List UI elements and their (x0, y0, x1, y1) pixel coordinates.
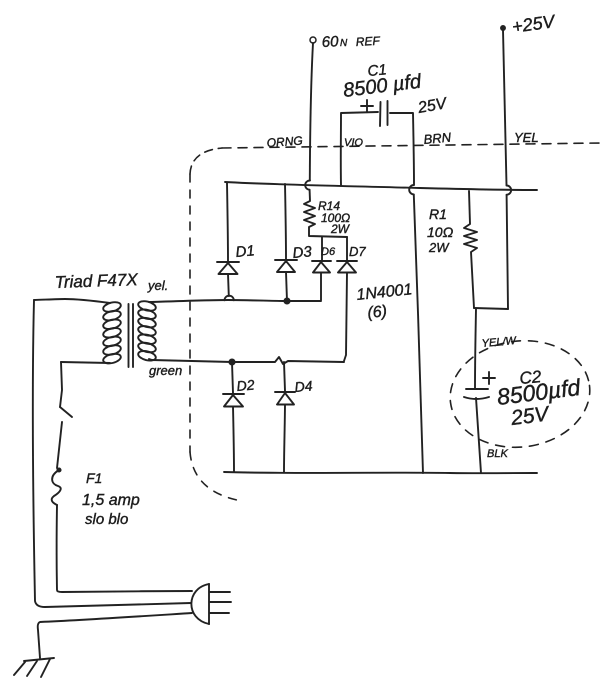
svg-text:D2: D2 (236, 376, 255, 394)
svg-text:BLK: BLK (487, 448, 508, 460)
svg-text:25V: 25V (509, 402, 552, 430)
svg-text:8500 µfd: 8500 µfd (342, 70, 423, 101)
svg-text:60: 60 (321, 33, 339, 51)
svg-text:BRN: BRN (423, 130, 452, 147)
svg-text:D6: D6 (321, 246, 336, 258)
svg-text:2W: 2W (330, 222, 351, 236)
svg-text:2W: 2W (428, 240, 450, 255)
svg-text:D3: D3 (292, 243, 313, 262)
svg-text:D1: D1 (235, 242, 256, 261)
svg-text:(6): (6) (367, 303, 388, 322)
svg-text:F1: F1 (86, 470, 102, 486)
svg-text:1N4001: 1N4001 (356, 281, 414, 304)
svg-text:D7: D7 (349, 244, 366, 259)
svg-text:yel.: yel. (147, 278, 168, 293)
svg-text:green: green (149, 363, 182, 378)
svg-text:ORNG: ORNG (266, 134, 303, 150)
svg-text:REF: REF (355, 34, 380, 49)
svg-text:10Ω: 10Ω (427, 224, 454, 240)
svg-text:N: N (340, 38, 348, 49)
svg-text:D4: D4 (294, 377, 313, 395)
svg-text:R1: R1 (429, 206, 447, 222)
svg-text:YEL/W: YEL/W (481, 335, 518, 350)
svg-text:YEL: YEL (514, 130, 539, 145)
svg-text:+25V: +25V (511, 11, 558, 37)
svg-text:VIO: VIO (344, 137, 363, 149)
svg-text:slo blo: slo blo (85, 511, 128, 528)
svg-text:25V: 25V (416, 95, 449, 117)
svg-text:1,5 amp: 1,5 amp (82, 492, 140, 509)
svg-text:Triad F47X: Triad F47X (54, 270, 138, 292)
